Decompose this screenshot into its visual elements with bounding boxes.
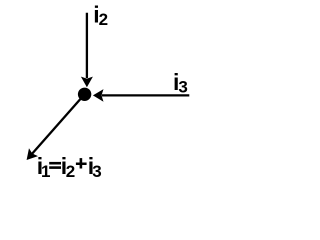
svg-text:2: 2 [66,162,75,181]
wire i1 (diagonal, out of node to lower left) [32,94,84,153]
arrowhead i3 (pointing left into node) [93,89,104,102]
node A (current summing junction) [78,88,91,101]
arrowhead i2 (pointing down into node) [81,77,93,88]
arrowhead i1 (pointing down-left away from node) [27,148,38,160]
equals sign [49,162,61,165]
svg-text:1: 1 [41,162,50,181]
svg-text:3: 3 [92,162,101,181]
plus sign [76,163,87,166]
svg-text:2: 2 [99,10,108,29]
wire i2 (vertical, from top into node) [86,13,88,78]
wire i3 (horizontal, from right into node) [102,94,190,96]
svg-text:3: 3 [178,78,187,97]
